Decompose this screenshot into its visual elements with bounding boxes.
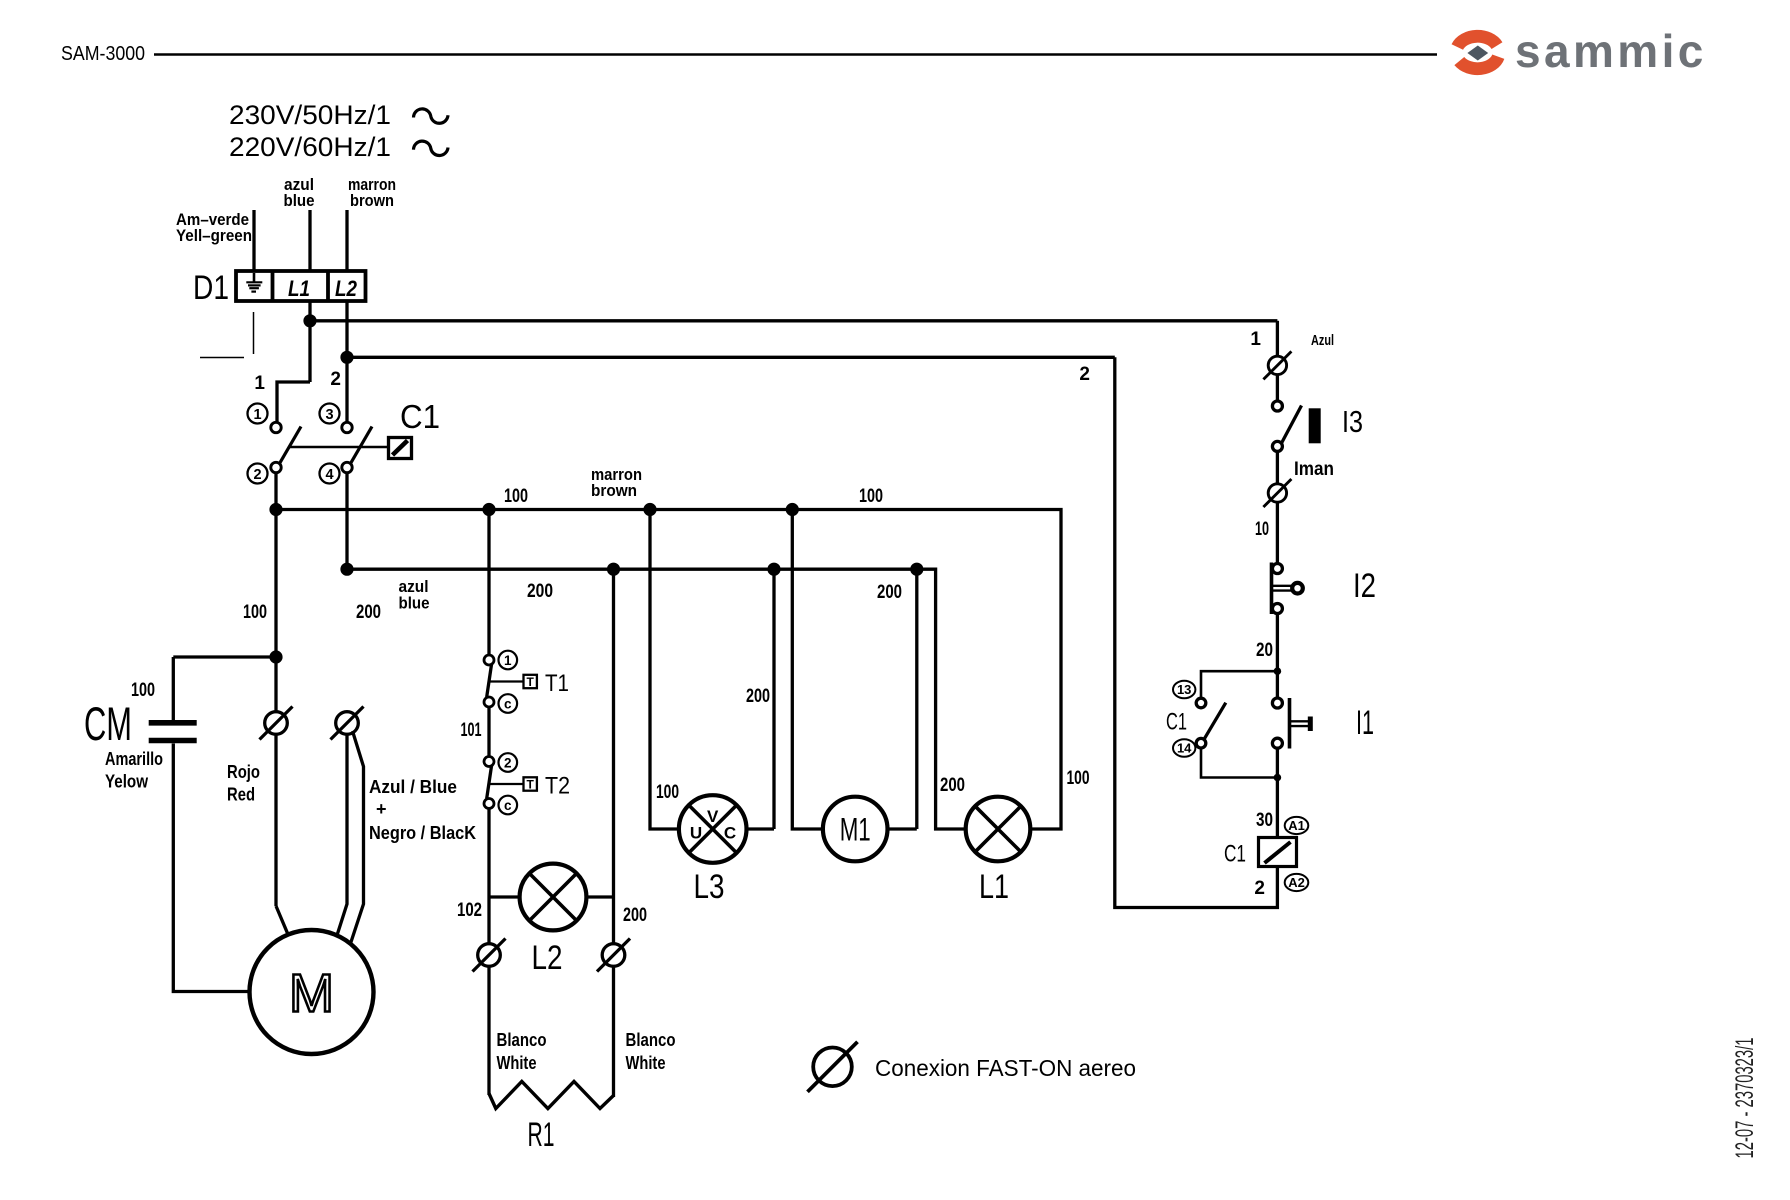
thermostat T2 bottom terminal <box>484 799 494 809</box>
pushbutton I1 top terminal <box>1272 698 1282 708</box>
AC sine symbol 2 <box>414 141 449 155</box>
svg-text:220V/60Hz/1: 220V/60Hz/1 <box>229 132 391 162</box>
wire aux 14 return <box>1201 748 1277 778</box>
svg-text:Blanco: Blanco <box>626 1030 676 1050</box>
svg-text:L2: L2 <box>532 939 563 977</box>
logo S mark top arc <box>1457 36 1497 47</box>
wire L3 right lead <box>747 827 775 830</box>
connector FAST-ON (L2 right) <box>597 939 630 972</box>
svg-text:10: 10 <box>1255 519 1269 540</box>
wire I3 to FAST-ON <box>1276 451 1279 484</box>
svg-text:+: + <box>376 799 387 819</box>
pushbutton I1 plunger <box>1290 717 1310 732</box>
coil C1 box <box>1259 838 1297 867</box>
svg-text:Yell–green: Yell–green <box>176 226 252 245</box>
wire aux branch to 13 <box>1201 671 1277 698</box>
svg-text:230V/50Hz/1: 230V/50Hz/1 <box>229 100 391 130</box>
svg-text:T: T <box>527 778 535 792</box>
wire 200 bus <box>347 569 966 829</box>
svg-text:100: 100 <box>243 602 267 623</box>
svg-text:Rojo: Rojo <box>227 762 260 782</box>
node 100 bus start <box>269 503 282 516</box>
pushbutton I2 bottom terminal <box>1272 604 1282 614</box>
thermostat T1 top terminal <box>484 655 494 665</box>
connector FAST-ON (azul/negro wires) <box>331 707 364 740</box>
wire 100 bus <box>276 510 1061 830</box>
thermostat T2 pin 2 circled <box>499 753 518 772</box>
thermostat T1 blade <box>487 665 492 698</box>
switch I3 top terminal <box>1272 401 1282 411</box>
wire M1 left branch <box>792 510 823 830</box>
pushbutton I1 bridge bar <box>1288 698 1292 749</box>
contact blade 3-4 <box>351 427 372 464</box>
svg-text:12-07 - 2370323/1: 12-07 - 2370323/1 <box>1731 1038 1759 1159</box>
wire to R1 left <box>487 966 490 1095</box>
earth chassis dash vertical <box>253 312 255 354</box>
connector FAST-ON (L2 left) <box>473 939 506 972</box>
node 200 bus L2 tap <box>607 563 620 576</box>
svg-text:L3: L3 <box>694 868 725 906</box>
svg-text:I2: I2 <box>1353 567 1376 605</box>
contact pin 2 circled label <box>248 464 268 484</box>
wire bus1 corner down to I3 branch <box>1276 321 1279 357</box>
svg-text:A1: A1 <box>1288 818 1305 833</box>
wire FAST-ON to I2 <box>1276 502 1279 564</box>
svg-text:L2: L2 <box>335 276 358 301</box>
thermostat T2 T-box <box>524 777 537 791</box>
wire M1 right branch up to 200 bus <box>915 569 918 829</box>
coil C1 diagonal <box>1265 842 1291 863</box>
wire L3 right branch up to 200 bus <box>772 569 775 829</box>
wire step to contact 1 <box>277 382 310 423</box>
svg-text:T2: T2 <box>545 773 570 800</box>
AC sine symbol 1 <box>414 109 449 123</box>
svg-text:C1: C1 <box>400 398 440 435</box>
capacitor CM plate 2 <box>149 738 197 744</box>
connector FAST-ON (Rojo wire) <box>260 707 293 740</box>
contact coupling link to C1 <box>290 446 389 449</box>
svg-text:4: 4 <box>325 467 333 483</box>
svg-text:CM: CM <box>84 697 132 750</box>
contact pin 1 circled label <box>248 404 268 424</box>
aux contact C1 terminal 14 <box>1196 738 1206 748</box>
svg-text:1: 1 <box>253 407 261 423</box>
node 200 bus start <box>340 563 353 576</box>
motor M1 circle <box>823 797 888 862</box>
contact pin 3 circled label <box>320 404 340 424</box>
thermostat T1 pin 1 circled <box>499 651 518 670</box>
wire capacitor to motor <box>173 744 249 992</box>
pushbutton I2 plunger <box>1273 583 1303 594</box>
wire azul into motor <box>336 735 347 938</box>
wire Rojo into motor <box>276 906 288 934</box>
contact blade 1-2 <box>280 427 301 464</box>
svg-text:I1: I1 <box>1356 704 1374 742</box>
svg-text:Red: Red <box>227 785 255 805</box>
wire L2 left lead <box>489 895 520 898</box>
ground symbol in D1 <box>246 273 262 292</box>
svg-text:I3: I3 <box>1342 404 1363 439</box>
thermostat T2 blade <box>487 766 492 799</box>
lamp L2 <box>520 864 587 931</box>
svg-text:L1: L1 <box>288 276 310 301</box>
logo diamond <box>1467 46 1488 61</box>
svg-text:2: 2 <box>330 369 341 390</box>
wire to R1 right <box>612 966 615 1097</box>
svg-text:Azul / Blue: Azul / Blue <box>369 777 457 797</box>
pushbutton I1 bottom terminal <box>1272 738 1282 748</box>
wire I1 to coil <box>1276 747 1279 837</box>
svg-text:V: V <box>707 807 719 826</box>
svg-text:L1: L1 <box>979 868 1009 906</box>
switch I3 blade <box>1281 406 1301 444</box>
svg-text:c: c <box>504 798 512 813</box>
svg-text:14: 14 <box>1177 741 1192 756</box>
motor M circle <box>250 930 374 1054</box>
svg-text:20: 20 <box>1256 640 1273 661</box>
node aux branch junction <box>1274 667 1282 675</box>
wire L3 left branch <box>650 510 679 830</box>
svg-text:R1: R1 <box>528 1116 555 1154</box>
magnet bar (I3) <box>1309 408 1321 443</box>
thermostat T2 top terminal <box>484 757 494 767</box>
node 200 bus M1 tap <box>910 563 923 576</box>
contact terminal 4 <box>342 462 352 472</box>
pin 13 circled label <box>1173 681 1195 699</box>
contact terminal 3 <box>342 422 352 432</box>
svg-text:Blanco: Blanco <box>497 1030 547 1050</box>
svg-text:brown: brown <box>350 191 394 210</box>
node bus2 junction <box>340 351 353 364</box>
node bus1 junction <box>303 314 316 327</box>
svg-text:C1: C1 <box>1166 709 1187 736</box>
svg-text:200: 200 <box>527 581 553 602</box>
svg-text:D1: D1 <box>193 269 229 307</box>
svg-text:101: 101 <box>461 720 482 741</box>
wire I2 to junction <box>1276 613 1279 700</box>
svg-text:Azul: Azul <box>1311 332 1334 349</box>
wire thermostat to L2/R1 left <box>487 809 490 944</box>
svg-text:brown: brown <box>591 481 637 500</box>
pin A2 circled label <box>1285 874 1309 891</box>
wire M1 right lead <box>888 827 917 830</box>
wire contact4 down to 200 bus <box>345 473 348 570</box>
svg-text:2: 2 <box>1079 364 1090 385</box>
earth chassis dash horizontal <box>200 357 244 359</box>
terminal block D1 <box>236 271 366 301</box>
svg-text:M1: M1 <box>840 812 871 848</box>
connector FAST-ON (Azul top right) <box>1263 351 1291 379</box>
wire to I3 <box>1276 375 1279 402</box>
svg-text:100: 100 <box>656 782 679 803</box>
wire from D1 L2 down to contact 3 <box>345 301 348 423</box>
wire negro into motor <box>351 731 364 944</box>
svg-text:2: 2 <box>1254 878 1265 899</box>
svg-text:Amarillo: Amarillo <box>105 749 163 769</box>
logo S mark bottom arc <box>1459 57 1498 69</box>
node 100 bus thermostat tap <box>482 503 495 516</box>
svg-text:White: White <box>497 1053 537 1073</box>
node 100 bus M1 tap <box>786 503 799 516</box>
wire bus 1 (from L1 to right column) <box>310 319 1277 322</box>
svg-text:13: 13 <box>1177 682 1191 697</box>
thermostat T2 pin c circled <box>499 796 518 815</box>
wire earth stub into D1 <box>252 210 255 272</box>
thermostat T1 link to T box <box>490 680 524 682</box>
wire between thermostats <box>487 707 490 757</box>
svg-text:100: 100 <box>504 486 528 507</box>
wire 200 branch down (L2 right) <box>612 569 615 944</box>
svg-text:200: 200 <box>940 775 965 796</box>
svg-text:1: 1 <box>1250 329 1261 350</box>
svg-text:200: 200 <box>623 905 647 926</box>
svg-text:M: M <box>289 964 334 1024</box>
lamp L3 UVC <box>679 795 747 863</box>
wire L2 right lead <box>586 895 613 898</box>
connector FAST-ON legend symbol <box>808 1042 858 1092</box>
svg-text:200: 200 <box>356 602 381 623</box>
contact terminal 1 <box>271 422 281 432</box>
lamp L1 <box>966 797 1031 862</box>
svg-text:C1: C1 <box>1224 841 1246 868</box>
svg-text:3: 3 <box>325 407 333 423</box>
wire azul stub into D1 L1 <box>308 210 311 272</box>
contactor C1 actuator diagonal <box>393 441 408 456</box>
capacitor CM plate 1 <box>149 720 197 726</box>
node CM branch junction <box>269 650 282 663</box>
svg-text:A2: A2 <box>1288 875 1305 890</box>
svg-text:100: 100 <box>859 486 883 507</box>
svg-text:SAM-3000: SAM-3000 <box>61 43 145 65</box>
wire thermostat branch upper <box>487 510 490 656</box>
node 100 bus L3 tap <box>643 503 656 516</box>
svg-text:T: T <box>527 675 535 689</box>
svg-text:100: 100 <box>1067 768 1090 789</box>
thermostat T2 link to T box <box>490 783 524 785</box>
switch I3 bottom terminal <box>1272 441 1282 451</box>
wire marron stub into D1 L2 <box>345 210 348 272</box>
svg-text:sammic: sammic <box>1515 25 1707 77</box>
wire CM branch horizontal <box>173 655 276 658</box>
thermostat T1 T-box <box>524 675 537 689</box>
wire coil bottom return <box>1115 357 1278 907</box>
svg-text:blue: blue <box>399 594 430 613</box>
svg-text:U: U <box>690 824 702 843</box>
thermostat T1 pin c circled <box>499 694 518 713</box>
node aux return junction <box>1274 774 1282 782</box>
svg-text:2: 2 <box>253 467 261 483</box>
wire contact2 down to 100 bus and motor branch <box>274 473 277 906</box>
contactor C1 actuator box <box>389 438 412 459</box>
svg-text:T1: T1 <box>545 670 569 697</box>
node 200 bus L3 tap <box>767 563 780 576</box>
svg-text:C: C <box>724 824 736 843</box>
pin 14 circled label <box>1173 739 1195 757</box>
svg-text:blue: blue <box>284 191 315 210</box>
wire bus 2 (from L2 to far right return) <box>347 356 1115 359</box>
header rule <box>154 53 1437 56</box>
svg-text:1: 1 <box>504 653 512 668</box>
svg-text:200: 200 <box>877 582 902 603</box>
connector FAST-ON (Iman) <box>1263 479 1291 507</box>
wire from D1 L1 down <box>308 301 311 382</box>
svg-text:102: 102 <box>457 900 482 921</box>
svg-text:100: 100 <box>131 680 155 701</box>
svg-text:Negro / BlacK: Negro / BlacK <box>369 823 476 843</box>
contact terminal 2 <box>271 462 281 472</box>
svg-text:1: 1 <box>254 373 265 394</box>
thermostat T1 bottom terminal <box>484 697 494 707</box>
pushbutton I2 top terminal <box>1272 564 1282 574</box>
svg-text:White: White <box>626 1053 666 1073</box>
svg-text:c: c <box>504 696 512 711</box>
svg-text:Conexion FAST-ON aereo: Conexion FAST-ON aereo <box>875 1055 1136 1081</box>
svg-text:200: 200 <box>746 686 770 707</box>
svg-text:Iman: Iman <box>1294 459 1334 480</box>
resistor R1 zigzag <box>489 1082 614 1109</box>
wire CM branch down to capacitor <box>172 657 175 720</box>
pin A1 circled label <box>1285 817 1309 834</box>
svg-text:Yelow: Yelow <box>105 772 149 792</box>
pushbutton I2 bridge bar <box>1270 563 1274 615</box>
contact pin 4 circled label <box>320 464 340 484</box>
svg-text:2: 2 <box>504 755 512 770</box>
svg-text:30: 30 <box>1256 810 1273 831</box>
aux contact C1 blade <box>1204 703 1226 740</box>
aux contact C1 terminal 13 <box>1196 698 1206 708</box>
